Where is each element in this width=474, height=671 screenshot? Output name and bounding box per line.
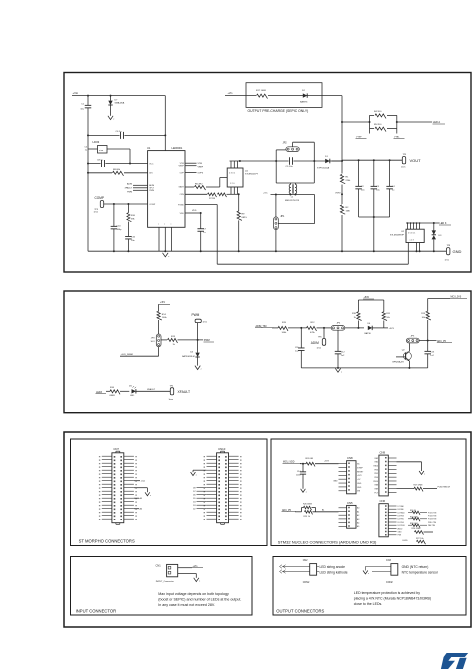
- svg-text:GND: GND: [333, 481, 338, 483]
- svg-text:A1: A1: [357, 510, 359, 513]
- LED D5: [132, 389, 136, 393]
- wire U2 bottom pins: [416, 243, 418, 252]
- svg-text:AVDD: AVDD: [398, 527, 404, 530]
- svg-text:1mm: 1mm: [401, 167, 406, 169]
- svg-text:(boost or SEPIC) and number of: (boost or SEPIC) and number of LEDs at t…: [158, 597, 241, 601]
- svg-text:OUTPUT PRE-CHARGE (SEPIC ONLY): OUTPUT PRE-CHARGE (SEPIC ONLY): [248, 109, 309, 113]
- svg-text:100p: 100p: [117, 229, 123, 231]
- svg-text:PB4: PB4: [374, 477, 378, 479]
- svg-text:STLM20W87F: STLM20W87F: [390, 234, 405, 236]
- capacitor C1: [87, 96, 89, 106]
- svg-text:+5V0_DIMM: +5V0_DIMM: [121, 354, 133, 356]
- net stub A4: [134, 508, 139, 510]
- svg-text:1mm: 1mm: [317, 347, 322, 349]
- svg-text:GND: GND: [398, 532, 403, 534]
- svg-text:U1: U1: [147, 146, 151, 150]
- svg-text:LED string kathode: LED string kathode: [320, 570, 348, 574]
- resistor R6 gate: [185, 186, 194, 188]
- svg-text:GND: GND: [357, 483, 362, 485]
- resistor R20: [306, 462, 315, 466]
- svg-text:R7 R8: R7 R8: [209, 198, 216, 200]
- svg-text:PCB3 TIM: PCB3 TIM: [428, 519, 437, 521]
- STM32 nucleo connectors frame: [271, 439, 466, 546]
- svg-text:GND (NTC return): GND (NTC return): [402, 565, 429, 569]
- svg-text:PA10: PA10: [374, 465, 378, 468]
- svg-text:CN9: CN9: [380, 451, 386, 455]
- svg-text:JP1: JP1: [280, 215, 285, 218]
- jumper JP5: [406, 338, 419, 343]
- svg-text:D5: D5: [193, 498, 195, 500]
- svg-text:CN7: CN7: [113, 447, 119, 451]
- wire VOUT rail: [342, 159, 402, 161]
- svg-text:OVP2: OVP2: [335, 192, 341, 194]
- svg-text:LED5: LED5: [403, 540, 409, 542]
- zener diode D7 SMAJ26A: [110, 96, 112, 101]
- svg-text:5 5 5 0 1: 5 5 5 0 1: [408, 232, 415, 234]
- svg-text:z: z: [150, 495, 151, 497]
- svg-text:placing a 47k NTC (Murata NCP1: placing a 47k NTC (Murata NCP18WB473J03R…: [354, 597, 431, 601]
- svg-text:CN8: CN8: [347, 456, 353, 460]
- wire PGND route: [185, 204, 217, 206]
- resistor R12: [307, 326, 317, 331]
- svg-text:680R: 680R: [110, 395, 116, 397]
- svg-text:z: z: [196, 475, 197, 477]
- svg-text:+3V3: +3V3: [389, 328, 395, 330]
- svg-text:PCB4 TIM1CH: PCB4 TIM1CH: [438, 486, 451, 488]
- svg-text:In any case it must not exceed: In any case it must not exceed 28V.: [158, 603, 215, 607]
- svg-text:R17 100R: R17 100R: [256, 90, 266, 92]
- resistor R8: [88, 172, 112, 174]
- svg-text:+3V3: +3V3: [357, 475, 361, 477]
- ground: [194, 578, 199, 582]
- resistor R11: [383, 300, 385, 312]
- svg-text:JP2: JP2: [283, 141, 288, 144]
- input connector frame: [71, 557, 253, 616]
- svg-text:CN3: CN3: [386, 559, 391, 562]
- svg-text:LD03: LD03: [93, 140, 100, 144]
- svg-text:COMP: COMP: [95, 196, 105, 200]
- wire CN3 gnd: [365, 566, 391, 568]
- svg-text:Max input voltage depends on b: Max input voltage depends on both topolo…: [158, 592, 229, 596]
- wire Q2 base: [396, 356, 406, 358]
- capacitor C4: [389, 160, 391, 186]
- svg-text:VREF: VREF: [198, 167, 204, 169]
- svg-text:IOREF: IOREF: [357, 467, 364, 469]
- svg-text:A1: A1: [322, 508, 324, 511]
- svg-text:R24 DNM: R24 DNM: [412, 528, 421, 530]
- net label VTM: [185, 162, 197, 164]
- wire CN1 gnd: [178, 573, 197, 575]
- svg-text:z: z: [168, 256, 169, 258]
- svg-text:LED6001: LED6001: [172, 146, 183, 150]
- wire sepic lower loop: [271, 194, 315, 196]
- svg-text:u 2 3: u 2 3: [410, 239, 414, 241]
- wire sepic loop bottom: [276, 182, 314, 184]
- wire +Vin rail: [72, 95, 165, 97]
- svg-text:1mm: 1mm: [445, 259, 450, 261]
- wire U1 ground pins: [158, 227, 160, 251]
- connectors section frame: [64, 432, 471, 627]
- svg-text:BAW76: BAW76: [300, 100, 308, 103]
- svg-text:R20 0R: R20 0R: [306, 458, 314, 460]
- svg-text:D7: D7: [193, 491, 195, 493]
- jumper JP4: [331, 326, 345, 331]
- svg-text:R4 1K0: R4 1K0: [374, 111, 382, 113]
- wire to LED A: [397, 121, 432, 123]
- net stub VTBL: [396, 129, 398, 134]
- svg-text:R21 0R: R21 0R: [410, 510, 417, 512]
- svg-text:SMAJ26A: SMAJ26A: [115, 102, 125, 105]
- svg-text:R23 DNM: R23 DNM: [410, 523, 418, 525]
- svg-text:LED temperature protection is: LED temperature protection is achieved b…: [354, 591, 420, 595]
- svg-text:R22 DNM: R22 DNM: [410, 516, 418, 518]
- svg-text:A4: A4: [357, 522, 359, 525]
- svg-text:VREF: VREF: [178, 165, 184, 167]
- svg-text:GND: GND: [357, 487, 362, 489]
- svg-text:100n: 100n: [296, 474, 300, 476]
- svg-text:PA9: PA9: [375, 488, 378, 491]
- svg-text:STL8N10LF7: STL8N10LF7: [245, 174, 259, 176]
- wire U1 VIN pin: [164, 96, 166, 151]
- svg-text:R8 68k: R8 68k: [113, 169, 121, 171]
- wire +5V supply to U1: [88, 163, 148, 165]
- net stubs CN10: [197, 487, 207, 489]
- wire VDD row: [300, 463, 306, 465]
- svg-text:BFN26A-3R: BFN26A-3R: [393, 360, 405, 363]
- label LED string kathode: [317, 571, 319, 573]
- net label VREF: [185, 165, 197, 167]
- svg-text:ADIM: ADIM: [311, 341, 319, 345]
- coupled inductor L1 MSD1278-223: [290, 183, 292, 184]
- svg-text:LED string anode: LED string anode: [320, 565, 346, 569]
- wire CSN sense: [185, 193, 207, 195]
- wire CN10 gnd stub: [193, 469, 206, 471]
- ground: [108, 116, 113, 120]
- power stage schematic frame: [64, 73, 471, 273]
- svg-text:PWM: PWM: [192, 313, 200, 317]
- transistor Q2 BFN26A: [408, 343, 410, 351]
- svg-text:D6 PB10: D6 PB10: [398, 525, 405, 527]
- capacitor C3: [373, 160, 375, 186]
- resistor R8b: [218, 193, 227, 197]
- svg-text:VDD: VDD: [192, 210, 197, 212]
- svg-text:BAT30KFILM: BAT30KFILM: [182, 355, 195, 358]
- svg-text:LED3: LED3: [96, 391, 103, 394]
- svg-text:+5V: +5V: [160, 300, 165, 304]
- resistor R9 current sense: [238, 194, 240, 211]
- wire switch node: [230, 160, 343, 162]
- resistor R25: [305, 510, 313, 514]
- svg-text:CN5: CN5: [347, 501, 353, 505]
- svg-text:GND: GND: [453, 249, 462, 254]
- capacitor C6: [120, 133, 125, 137]
- transistor Q1 STL8N10LF7: [227, 168, 243, 187]
- svg-text:OVP3: OVP3: [198, 172, 204, 174]
- wire LED K: [406, 222, 439, 224]
- svg-text:D5 PB4: D5 PB4: [398, 522, 404, 524]
- svg-text:OUTPUT CONNECTORS: OUTPUT CONNECTORS: [276, 609, 324, 614]
- svg-text:A2: A2: [357, 514, 359, 517]
- resistor R18: [357, 300, 359, 312]
- svg-text:PB10: PB10: [373, 481, 378, 483]
- ST logo: [441, 653, 468, 669]
- resistor R16: [110, 390, 120, 395]
- diode D2 BAW76: [303, 93, 307, 97]
- svg-text:VDD: VDD: [180, 213, 185, 215]
- svg-text:MSD1278-223: MSD1278-223: [285, 200, 300, 202]
- resistor R10 and capacitor C15 branch: [127, 204, 129, 213]
- svg-text:PB10 TIM: PB10 TIM: [428, 522, 436, 524]
- svg-text:ADC_P5: ADC_P5: [437, 340, 447, 343]
- svg-text:z: z: [201, 369, 202, 371]
- wire PWM_DIMM: [158, 347, 160, 357]
- svg-text:R25 1k: R25 1k: [304, 516, 310, 518]
- svg-text:PB3: PB3: [374, 469, 378, 471]
- svg-text:XFAULT: XFAULT: [178, 390, 191, 394]
- capacitor C10: [113, 204, 115, 226]
- zener diode D3: [433, 223, 435, 231]
- resistor R4 / R5 divider: [342, 121, 370, 123]
- ground: [363, 571, 368, 574]
- svg-text:CON2: CON2: [386, 581, 393, 584]
- svg-text:PWM: PWM: [149, 190, 154, 192]
- svg-text:PCB2 TIM: PCB2 TIM: [428, 516, 437, 518]
- svg-text:CSN: CSN: [180, 194, 185, 196]
- svg-text:VCC: VCC: [149, 163, 154, 165]
- capacitor C8: [101, 162, 106, 166]
- svg-text:VTM: VTM: [198, 163, 203, 165]
- wire JP4 to loop: [345, 327, 364, 329]
- svg-text:0R15: 0R15: [242, 217, 248, 219]
- ground: [419, 471, 424, 474]
- ground: [301, 489, 306, 492]
- svg-text:XFAULT: XFAULT: [125, 186, 133, 189]
- svg-text:D6: D6: [193, 495, 195, 497]
- svg-text:LED: LED: [130, 395, 135, 397]
- svg-text:CN1: CN1: [156, 564, 162, 568]
- wire to 3V3: [384, 327, 388, 329]
- svg-text:CN10: CN10: [218, 447, 226, 451]
- diode D6 BAT30: [368, 326, 372, 330]
- svg-text:PA2: PA2: [375, 461, 378, 464]
- wire analog ground rail: [301, 367, 427, 369]
- wire ADC_P5: [419, 340, 436, 342]
- resistor R27 DNM: [414, 487, 423, 491]
- resistor R26 DNM: [302, 507, 304, 509]
- svg-text:STPS2L40A: STPS2L40A: [317, 166, 330, 169]
- svg-text:R27 DNM: R27 DNM: [414, 484, 423, 486]
- svg-text:CN2: CN2: [303, 559, 308, 562]
- svg-text:1mm: 1mm: [203, 321, 208, 323]
- svg-text:C8 1u: C8 1u: [97, 159, 104, 161]
- svg-text:PCB1 TIM: PCB1 TIM: [428, 512, 437, 514]
- jumper JP3: [156, 334, 161, 347]
- dimming control frame: [64, 291, 471, 413]
- svg-text:VOUT: VOUT: [410, 158, 422, 163]
- ground: [335, 368, 340, 372]
- svg-text:PB5: PB5: [374, 473, 378, 475]
- svg-text:C6 1u: C6 1u: [116, 131, 123, 133]
- svg-text:D3 PB3: D3 PB3: [398, 516, 404, 518]
- svg-text:ADIM: ADIM: [127, 182, 132, 185]
- ground: [163, 253, 169, 257]
- svg-text:D2: D2: [193, 509, 195, 511]
- ground: [145, 492, 150, 495]
- net stub XFAULT: [133, 187, 148, 189]
- diode D1 STPS2L40A: [332, 160, 342, 162]
- svg-text:GATE: GATE: [179, 186, 185, 189]
- svg-text:OVP: OVP: [180, 172, 185, 174]
- wire Q1 source pins: [230, 187, 232, 194]
- resistor R1: [339, 174, 345, 185]
- svg-text:D4 PB5: D4 PB5: [398, 519, 404, 521]
- wire LDO input: [88, 134, 165, 136]
- test point TP6 ADIM: [323, 328, 325, 339]
- wire U2 top pins: [407, 223, 409, 229]
- svg-text:LED A: LED A: [433, 120, 441, 124]
- net stub VTSF: [369, 129, 371, 134]
- capacitor C12: [337, 331, 339, 352]
- svg-text:1mm: 1mm: [94, 212, 99, 214]
- wire CN7 gnd stub: [134, 487, 148, 489]
- svg-text:z: z: [341, 371, 342, 373]
- wire +Vin to pre-charge: [225, 95, 342, 97]
- svg-text:NTC temperature sensor: NTC temperature sensor: [402, 570, 439, 574]
- resistor R15: [278, 326, 288, 331]
- svg-text:CN6: CN6: [380, 499, 386, 503]
- resistor R13: [168, 338, 178, 343]
- svg-text:PA8: PA8: [375, 484, 378, 487]
- svg-text:CON2: CON2: [303, 581, 310, 584]
- capacitor C5 sepic: [289, 159, 294, 163]
- wire CN9 gnd: [397, 461, 422, 463]
- svg-text:D8 PA9: D8 PA9: [398, 508, 404, 511]
- net label OVP3: [185, 171, 197, 173]
- svg-text:z: z: [113, 119, 114, 121]
- wire PWM row: [161, 339, 168, 341]
- wire ADIM row: [272, 327, 278, 329]
- svg-text:INPUT_Connector: INPUT_Connector: [156, 580, 174, 583]
- ground: [195, 366, 200, 370]
- wire ground rail: [88, 250, 446, 252]
- resistor R17: [256, 93, 268, 99]
- svg-text:INPUT CONNECTOR: INPUT CONNECTOR: [76, 609, 117, 614]
- wire fault row: [106, 390, 110, 392]
- label LED string anode: [317, 566, 319, 568]
- capacitor C7 VDD: [185, 212, 201, 214]
- svg-text:+Vin: +Vin: [228, 92, 233, 95]
- wire adc row: [295, 511, 302, 513]
- svg-text:A5: A5: [357, 525, 359, 528]
- net stub A5: [134, 497, 139, 499]
- resistor R7: [208, 193, 217, 197]
- wire OVP divider: [341, 96, 343, 252]
- svg-text:R6 2R2: R6 2R2: [195, 183, 203, 185]
- svg-text:D3: D3: [193, 505, 195, 507]
- svg-text:COMP: COMP: [149, 204, 156, 206]
- svg-text:PA3: PA3: [375, 457, 378, 460]
- svg-text:STM32 NUCLEO CONNECTORS (ARDUI: STM32 NUCLEO CONNECTORS (ARDUINO UNO R3): [278, 540, 377, 545]
- svg-text:z: z: [306, 491, 307, 493]
- svg-text:ST MORPHO CONNECTORS: ST MORPHO CONNECTORS: [79, 539, 135, 544]
- ST morpho connectors frame: [71, 439, 268, 546]
- wire CN7 +5vb stub: [134, 480, 140, 482]
- net stub ADIM: [133, 184, 148, 186]
- svg-text:C5 10u: C5 10u: [286, 166, 294, 168]
- svg-text:PC7: PC7: [374, 492, 378, 494]
- net stub PWM: [133, 189, 148, 191]
- wire JP2 top: [292, 142, 294, 146]
- svg-text:z: z: [199, 581, 200, 583]
- svg-text:1u: 1u: [85, 150, 87, 152]
- wire JP2 left: [276, 149, 286, 151]
- svg-text:RESET: RESET: [357, 471, 364, 473]
- svg-text:D8: D8: [193, 488, 195, 490]
- capacitor C14: [302, 464, 304, 472]
- svg-text:BAT30: BAT30: [365, 332, 372, 335]
- svg-text:ADC_P5: ADC_P5: [282, 509, 292, 512]
- svg-text:XFAULT: XFAULT: [147, 388, 156, 391]
- net label MCU_5V0: [428, 298, 450, 300]
- capacitor C2: [358, 160, 360, 186]
- svg-text:PGND: PGND: [178, 204, 184, 206]
- resistor R14: [158, 304, 160, 311]
- svg-text:z: z: [424, 474, 425, 476]
- wire CN1 +Vin: [178, 567, 192, 569]
- wire output caps return: [359, 216, 390, 218]
- svg-text:ADIM_TIM: ADIM_TIM: [256, 325, 267, 328]
- resistor R2: [339, 204, 345, 215]
- output connectors frame: [273, 557, 466, 616]
- svg-text:R5 2K0: R5 2K0: [374, 124, 382, 126]
- capacitor C13: [427, 341, 429, 352]
- svg-text:A3: A3: [357, 518, 359, 521]
- svg-text:+Vin: +Vin: [73, 91, 79, 95]
- resistor R19: [427, 299, 429, 312]
- svg-text:D7 PA8: D7 PA8: [398, 505, 404, 508]
- svg-text:R26 DNM: R26 DNM: [303, 504, 312, 506]
- svg-text:+Vin: +Vin: [263, 193, 268, 195]
- wire Q1 drain pins: [230, 161, 232, 168]
- svg-text:PB8: PB8: [398, 535, 401, 537]
- jumper JP1: [274, 217, 279, 230]
- wire CN9 R27 row: [397, 488, 415, 490]
- wire COMP: [104, 203, 148, 205]
- capacitor C11: [300, 328, 302, 348]
- svg-text:1mm: 1mm: [169, 399, 174, 401]
- svg-text:A0: A0: [357, 507, 359, 510]
- ground: [191, 472, 196, 475]
- svg-text:D4: D4: [193, 502, 195, 504]
- svg-text:PA8 TIM: PA8 TIM: [428, 524, 435, 527]
- svg-text:2 3 0 1: 2 3 0 1: [229, 173, 236, 175]
- diode D4 BAT30KFILM: [197, 340, 199, 353]
- svg-text:D2 PA10: D2 PA10: [398, 511, 405, 514]
- output pre-charge frame: [246, 83, 322, 108]
- svg-text:z: z: [368, 573, 369, 575]
- svg-text:PWM: PWM: [127, 191, 132, 193]
- svg-text:close to the LEDs.: close to the LEDs.: [354, 602, 382, 606]
